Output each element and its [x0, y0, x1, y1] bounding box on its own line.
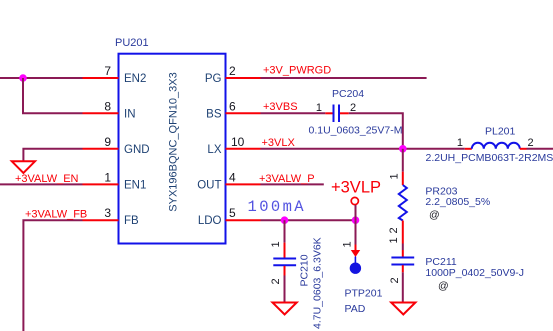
node junction LDO/PC210 [281, 216, 289, 224]
svg-text:IN: IN [124, 108, 136, 120]
wire LX [261, 148, 465, 150]
power terminal circle +3VLP [351, 197, 358, 204]
capacitor PC210 pin1 stub [284, 243, 286, 258]
capacitor PC210 plates [273, 259, 296, 266]
svg-text:+3VLP: +3VLP [331, 179, 381, 197]
wire OUT [261, 183, 324, 185]
ground symbol at GND pin [12, 161, 35, 173]
svg-text:9: 9 [104, 135, 111, 149]
svg-text:PU201: PU201 [115, 37, 149, 49]
resistor PR203 zigzag [399, 185, 407, 221]
test point arrow PTP201 [351, 245, 360, 264]
inductor PL201 coils [472, 143, 520, 149]
test point pad PTP201 [350, 263, 361, 274]
svg-text:PL201: PL201 [485, 126, 516, 138]
pin 5 stub [226, 219, 261, 221]
svg-text:@: @ [429, 209, 440, 221]
svg-text:0.1U_0603_25V7-M: 0.1U_0603_25V7-M [309, 125, 403, 137]
op-amp U1 regulator chip PU201 body [119, 54, 226, 244]
pin 1 stub [83, 183, 119, 185]
svg-text:LX: LX [207, 144, 221, 156]
svg-text:+3VLX: +3VLX [262, 137, 296, 149]
node junction EN2/IN [19, 74, 27, 82]
node junction LX [399, 145, 407, 153]
svg-text:1: 1 [457, 137, 463, 149]
svg-text:1: 1 [388, 237, 400, 243]
capacitor PC204 plates [334, 105, 340, 123]
pin 8 stub [83, 112, 119, 114]
capacitor PC204 pin2 stub [340, 112, 349, 114]
wire PC210 to ground [284, 276, 286, 303]
svg-text:5: 5 [229, 206, 236, 220]
inductor PL201 pin2 stub [520, 148, 527, 150]
svg-text:EN2: EN2 [124, 73, 146, 85]
svg-text:PAD: PAD [345, 303, 366, 315]
svg-text:2: 2 [270, 278, 282, 284]
svg-text:2: 2 [389, 277, 401, 283]
svg-text:6: 6 [229, 99, 236, 113]
svg-text:8: 8 [104, 99, 111, 113]
capacitor PC211 pin1 stub [402, 250, 404, 257]
wire LX output to edge [527, 148, 553, 150]
svg-text:@: @ [438, 280, 449, 292]
pin 6 stub [226, 112, 261, 114]
wire LDO junction down to PC210 [284, 220, 286, 242]
svg-text:1000P_0402_50V9-J: 1000P_0402_50V9-J [425, 267, 524, 279]
svg-text:GND: GND [124, 144, 150, 156]
svg-text:FB: FB [124, 215, 139, 227]
wire BS to capacitor PC204 [261, 112, 326, 114]
svg-text:2.2UH_PCMB063T-2R2MS: 2.2UH_PCMB063T-2R2MS [426, 152, 553, 164]
svg-text:+3V_PWRGD: +3V_PWRGD [263, 65, 331, 77]
svg-text:1: 1 [270, 241, 282, 247]
svg-text:4: 4 [229, 170, 236, 184]
wire GND pin to ground [23, 149, 82, 162]
svg-text:PC210: PC210 [299, 254, 311, 286]
capacitor PC211 plates [391, 258, 414, 265]
wire PC211 to ground [402, 272, 404, 302]
svg-text:+3VALW_P: +3VALW_P [259, 173, 315, 185]
svg-text:4.7U_0603_6.3V6K: 4.7U_0603_6.3V6K [312, 237, 324, 329]
svg-text:1: 1 [342, 241, 354, 247]
svg-text:1: 1 [104, 170, 111, 184]
svg-text:+3VALW_FB: +3VALW_FB [25, 209, 87, 221]
wire LDO [261, 219, 356, 221]
resistor PR203 pin2 stub [402, 221, 404, 244]
wire PC204 to LX node [349, 113, 403, 149]
wire +3V_PWRGD [261, 77, 427, 79]
svg-text:2.2_0805_5%: 2.2_0805_5% [425, 196, 490, 208]
svg-text:SYX196BQNC_QFN10_3X3: SYX196BQNC_QFN10_3X3 [168, 72, 180, 211]
svg-text:10: 10 [231, 135, 245, 149]
capacitor PC211 pin2 stub [402, 265, 404, 272]
resistor PR203 pin1 stub [402, 172, 404, 185]
svg-text:EN1: EN1 [124, 179, 146, 191]
svg-text:2: 2 [229, 64, 236, 78]
wire EN1 [0, 183, 83, 185]
svg-text:PTP201: PTP201 [345, 288, 383, 300]
svg-text:PG: PG [205, 73, 222, 85]
svg-text:2: 2 [350, 102, 356, 114]
svg-text:7: 7 [104, 64, 111, 78]
pin 3 stub [83, 219, 119, 221]
svg-text:3: 3 [104, 206, 111, 220]
ground symbol below PC211 [391, 303, 415, 315]
wire +3VLP circle to LDO wire [355, 205, 357, 220]
svg-text:+3VALW_EN: +3VALW_EN [15, 173, 79, 185]
svg-text:PC204: PC204 [332, 88, 364, 100]
pin 2 stub [226, 77, 261, 79]
pin 4 stub [226, 183, 261, 185]
svg-text:2: 2 [388, 227, 400, 233]
svg-text:2: 2 [528, 137, 534, 149]
svg-text:OUT: OUT [197, 179, 221, 191]
pin 9 stub [83, 148, 119, 150]
svg-text:+3VBS: +3VBS [263, 101, 298, 113]
capacitor C PC204 pin1 stub [325, 112, 332, 114]
inductor PL201 pin1 stub [465, 148, 472, 150]
wire LX junction down to PR203 [402, 149, 404, 172]
wire PR203 to PC211 [402, 244, 404, 251]
ground symbol below PC210 [273, 303, 297, 315]
capacitor PC210 pin2 stub [284, 266, 286, 276]
wire FB [23, 220, 82, 331]
node junction LDO/PTP201 [352, 216, 360, 224]
wire junction down to IN [23, 78, 83, 113]
wire LDO junction down to PTP201 [355, 220, 357, 244]
pin 7 stub [83, 77, 119, 79]
pin 10 stub [226, 148, 261, 150]
svg-text:LDO: LDO [198, 215, 222, 227]
svg-text:100mA: 100mA [248, 198, 307, 216]
wire input to EN2 [0, 77, 83, 79]
svg-text:1: 1 [389, 173, 401, 179]
svg-text:BS: BS [206, 108, 222, 120]
svg-text:1: 1 [316, 102, 322, 114]
